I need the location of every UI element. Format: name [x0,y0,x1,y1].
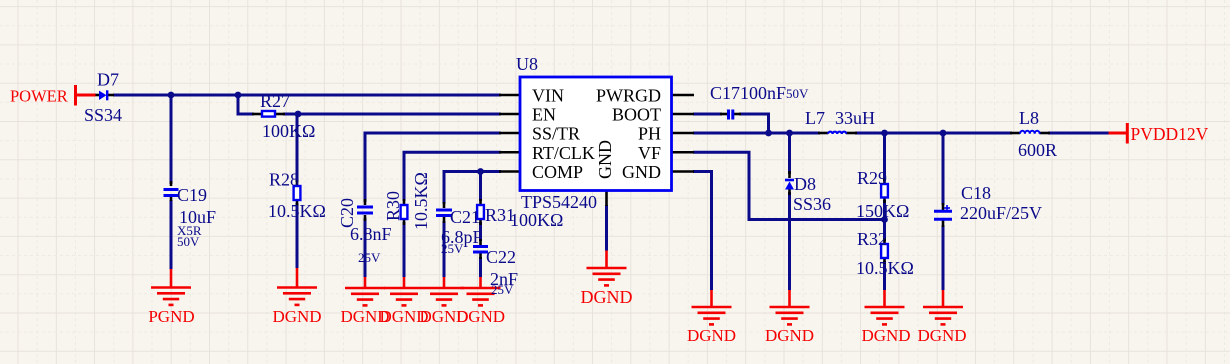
svg-text:L8: L8 [1019,108,1039,128]
svg-text:PVDD12V: PVDD12V [1131,124,1209,144]
svg-text:D7: D7 [97,70,119,90]
svg-text:150KΩ: 150KΩ [856,201,909,221]
svg-text:U8: U8 [516,54,538,74]
svg-text:600R: 600R [1018,140,1057,160]
svg-text:10.5KΩ: 10.5KΩ [268,201,326,221]
svg-text:L7: L7 [805,108,825,128]
svg-text:PWRGD: PWRGD [596,86,661,106]
svg-text:R28: R28 [269,170,299,190]
svg-text:100nF: 100nF [740,83,786,103]
svg-text:C22: C22 [486,247,516,267]
svg-text:25V: 25V [441,241,464,256]
svg-text:25V: 25V [491,282,514,297]
svg-text:SS36: SS36 [793,194,831,214]
svg-text:C17: C17 [710,83,740,103]
svg-text:PH: PH [638,124,661,144]
svg-text:10.5KΩ: 10.5KΩ [411,172,431,230]
svg-text:R27: R27 [260,91,290,111]
svg-text:DGND: DGND [861,326,910,345]
svg-text:GND: GND [595,140,615,179]
svg-text:C18: C18 [961,183,991,203]
svg-text:C21: C21 [450,207,480,227]
svg-text:D8: D8 [794,174,816,194]
svg-text:R30: R30 [383,191,403,221]
svg-text:DGND: DGND [456,307,505,326]
svg-text:DGND: DGND [687,326,736,345]
svg-text:10.5KΩ: 10.5KΩ [856,258,914,278]
svg-text:SS/TR: SS/TR [532,124,580,144]
svg-text:TPS54240: TPS54240 [521,192,597,212]
svg-text:DGND: DGND [917,326,966,345]
svg-text:33uH: 33uH [835,108,875,128]
svg-text:25V: 25V [358,250,381,265]
svg-text:VIN: VIN [532,86,564,106]
svg-text:DGND: DGND [765,326,814,345]
svg-text:POWER: POWER [10,87,68,106]
svg-text:COMP: COMP [532,162,583,182]
svg-text:6.8nF: 6.8nF [350,224,392,244]
svg-text:RT/CLK: RT/CLK [532,143,595,163]
svg-text:PGND: PGND [148,307,194,326]
svg-text:R32: R32 [857,229,887,249]
svg-text:C19: C19 [177,185,207,205]
svg-text:SS34: SS34 [84,105,122,125]
svg-text:220uF/25V: 220uF/25V [960,203,1042,223]
svg-text:100KΩ: 100KΩ [510,210,563,230]
svg-text:BOOT: BOOT [612,105,661,125]
svg-text:VF: VF [638,143,661,163]
svg-text:50V: 50V [786,86,809,101]
svg-text:EN: EN [532,105,556,125]
svg-text:100KΩ: 100KΩ [262,121,315,141]
svg-text:GND: GND [622,162,661,182]
svg-text:DGND: DGND [581,287,633,307]
svg-text:50V: 50V [177,234,200,249]
svg-text:DGND: DGND [272,307,321,326]
svg-text:R29: R29 [857,168,887,188]
